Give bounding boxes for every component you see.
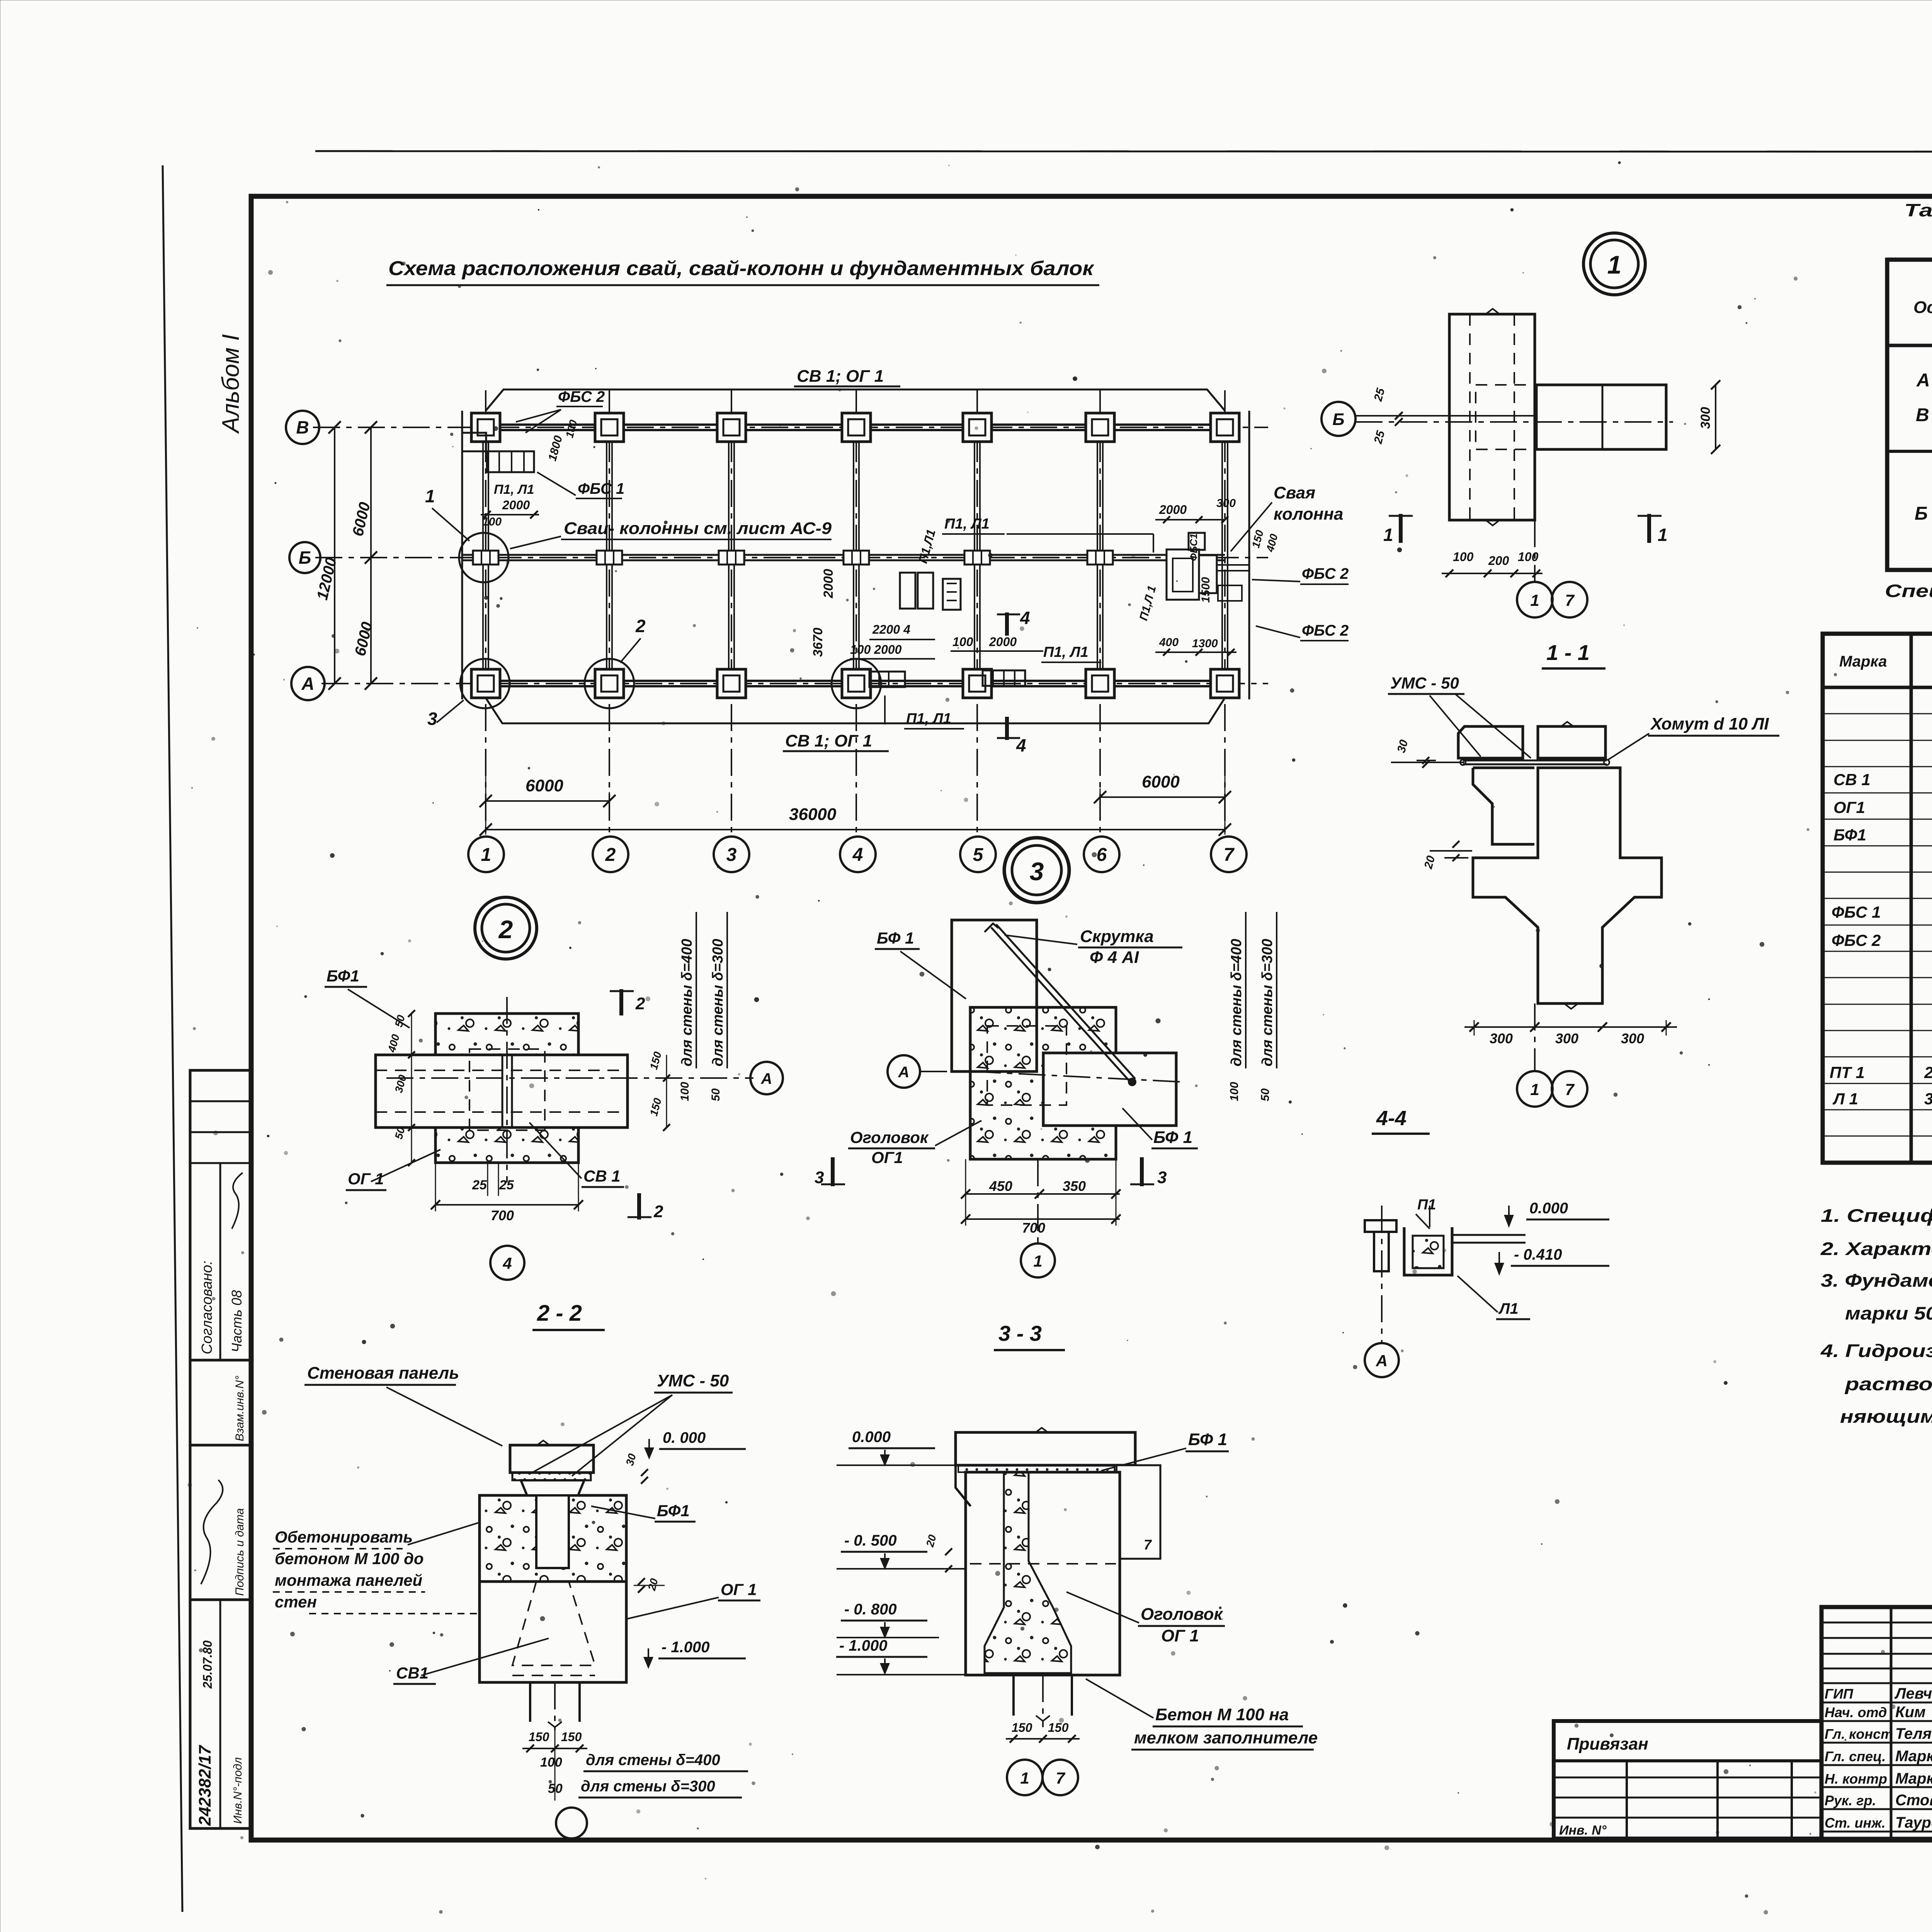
plates block near V1 [462, 433, 486, 451]
svg-text:БФ 1: БФ 1 [1188, 1430, 1227, 1449]
svg-text:1: 1 [1607, 250, 1622, 279]
node 1 callout circle [1583, 233, 1645, 295]
spec row line 9 [1823, 925, 1932, 926]
svg-text:4: 4 [852, 845, 863, 865]
svg-text:УМС - 50: УМС - 50 [1390, 674, 1459, 692]
axis circle 4 bottom [840, 837, 876, 872]
svg-text:ГИП: ГИП [1825, 1686, 1854, 1702]
svg-text:25: 25 [472, 1178, 487, 1192]
svg-text:для стены δ=400: для стены δ=400 [586, 1752, 720, 1769]
beam piece B2 [597, 551, 622, 565]
svg-text:7: 7 [1144, 1537, 1152, 1553]
beam column axis 4 [853, 427, 854, 684]
spec row line 7 [1823, 872, 1932, 873]
svg-text:БФ 1: БФ 1 [1153, 1128, 1192, 1147]
outer sheet edge top [315, 151, 1932, 152]
section1-1 panel top left [1458, 726, 1523, 758]
stamp frame [1821, 1607, 1932, 1839]
svg-text:Спецификация к схеме расп: Спецификация к схеме расположения свай, … [1885, 581, 1932, 601]
svg-text:2: 2 [498, 915, 513, 944]
spec row line 2 [1823, 740, 1932, 741]
spec row line 6 [1823, 845, 1932, 847]
4-4 pile piece [1365, 1220, 1396, 1232]
concrete pillar s33 [985, 1472, 1071, 1673]
svg-text:ОГ 1: ОГ 1 [721, 1580, 757, 1599]
svg-text:Инв.N°-подл: Инв.N°-подл [231, 1757, 244, 1824]
svg-text:3.006-2 вып. II - 1: 3.006-2 вып. II - 1 [1924, 1090, 1932, 1108]
node2 beam band [376, 1055, 628, 1128]
svg-text:2: 2 [635, 994, 645, 1013]
svg-text:1300: 1300 [1192, 637, 1218, 650]
axis column 3 line [731, 390, 732, 835]
mortar under beam s33 [958, 1465, 1117, 1472]
svg-text:П1, Л1: П1, Л1 [944, 516, 990, 532]
beam column axis 5 [974, 427, 975, 684]
svg-text:Схема расположения свай, свай-: Схема расположения свай, свай-колонн и ф… [388, 257, 1095, 280]
dims 150 150 s22 [522, 1748, 587, 1749]
foundation beam row B [462, 554, 1225, 556]
detail circle at A1 [460, 659, 510, 708]
axis circle 7 bottom [1211, 837, 1247, 872]
svg-text:СВ 1: СВ 1 [1833, 770, 1871, 789]
svg-text:Ким: Ким [1895, 1704, 1926, 1721]
svg-text:монтажа панелей: монтажа панелей [275, 1571, 422, 1589]
axis column 1 line [485, 390, 486, 835]
svg-text:2 - 2: 2 - 2 [537, 1301, 582, 1326]
margin approval box [190, 1070, 251, 1360]
main OG1 box s33 [966, 1472, 1120, 1675]
svg-text:В: В [1916, 405, 1929, 425]
svg-text:2. Характеристики грунта осн: 2. Характеристики грунта основания даны … [1820, 1238, 1932, 1259]
svg-text:2000: 2000 [1159, 503, 1187, 517]
outer sheet edge left (skewed) [163, 165, 182, 1912]
margin box inv n podl [190, 1600, 251, 1828]
stamp revision rows [1821, 1622, 1932, 1624]
svg-text:Нач. отд: Нач. отд [1825, 1704, 1887, 1720]
dim line 6000 6000 vertical [370, 427, 372, 684]
pile below s33 [1012, 1675, 1015, 1716]
svg-text:7: 7 [1565, 1080, 1575, 1099]
svg-text:Гл. конст: Гл. конст [1825, 1726, 1893, 1742]
svg-text:300: 300 [1555, 1031, 1578, 1046]
svg-text:1: 1 [1530, 591, 1539, 609]
node1 dim 300 [1715, 385, 1716, 449]
section1-1 column top right [1538, 726, 1605, 758]
svg-text:Марков: Марков [1895, 1770, 1932, 1787]
node1 axis circles 1 7 [1517, 582, 1553, 617]
svg-text:6000: 6000 [526, 776, 563, 795]
svg-text:7: 7 [1224, 845, 1235, 865]
section1-1 axis circles [1517, 1071, 1553, 1107]
svg-text:300: 300 [1216, 497, 1236, 510]
svg-text:4: 4 [1020, 608, 1030, 628]
spec table frame [1823, 634, 1932, 1163]
building edge right [1248, 411, 1250, 699]
spec row line 10 [1823, 951, 1932, 952]
svg-text:3: 3 [1157, 1168, 1167, 1187]
svg-text:для стены δ=300: для стены δ=300 [581, 1778, 715, 1795]
spec row line 17 [1823, 1136, 1932, 1137]
axis circle 5 bottom [960, 837, 996, 872]
pile column cross outline [1473, 768, 1662, 1003]
detail callout circle 3 big [1004, 838, 1069, 903]
pile cap A4 [842, 669, 871, 698]
dim line 12000 [334, 427, 335, 684]
svg-text:Стеновая панель: Стеновая панель [307, 1364, 459, 1383]
svg-text:мелком заполнителе: мелком заполнителе [1134, 1728, 1318, 1747]
svg-text:Оголовок: Оголовок [1141, 1605, 1224, 1624]
svg-text:150: 150 [529, 1730, 549, 1744]
svg-text:2: 2 [653, 1202, 663, 1221]
spec row line 4 [1823, 793, 1932, 794]
svg-text:ФБС 2: ФБС 2 [1832, 931, 1881, 949]
svg-text:П1, Л1: П1, Л1 [494, 482, 534, 497]
node2 section flag 2 top [619, 989, 623, 1015]
pile cap V1 [471, 413, 500, 442]
svg-text:3 - 3: 3 - 3 [998, 1321, 1042, 1345]
svg-text:100: 100 [1453, 550, 1474, 564]
OG1 box s22 [480, 1582, 626, 1682]
svg-text:- 0. 500: - 0. 500 [844, 1532, 897, 1549]
svg-text:ПТ 1: ПТ 1 [1830, 1063, 1865, 1082]
building edge left [461, 411, 463, 699]
svg-text:Обетонировать: Обетонировать [275, 1528, 413, 1546]
spec row line 16 [1823, 1109, 1932, 1111]
pile cap V3 [717, 413, 746, 442]
svg-text:Инв. N°: Инв. N° [1559, 1823, 1607, 1838]
svg-text:1: 1 [1658, 525, 1668, 545]
node2 axis circle 4 [490, 1246, 524, 1280]
svg-text:П1: П1 [1417, 1197, 1436, 1213]
privyazan table [1554, 1721, 1821, 1838]
svg-text:ОГ1: ОГ1 [1833, 798, 1865, 816]
svg-text:Ф 4 АI: Ф 4 АI [1090, 948, 1139, 967]
svg-text:0. 000: 0. 000 [663, 1429, 706, 1446]
svg-text:БФ1: БФ1 [1833, 826, 1866, 844]
foundation beam row A [486, 680, 1225, 682]
pile below s22 [529, 1682, 531, 1722]
svg-text:Часть 08: Часть 08 [229, 1290, 245, 1352]
svg-text:3: 3 [1030, 857, 1044, 886]
svg-text:6: 6 [1097, 845, 1107, 865]
spec row line 12 [1823, 1004, 1932, 1005]
beam column axis 6 [1097, 427, 1098, 684]
empty circle s22 [556, 1808, 587, 1838]
detail circle at B1 [459, 533, 509, 582]
svg-text:Марков: Марков [1895, 1748, 1932, 1765]
section1-1 bottom dims 300x3 [1464, 1026, 1677, 1028]
pile cap V5 [963, 413, 992, 442]
svg-text:ОГ1: ОГ1 [871, 1148, 903, 1167]
svg-text:УМС - 50: УМС - 50 [657, 1371, 729, 1390]
node3 concrete cap [970, 1007, 1116, 1159]
svg-text:Бетон М 100 на: Бетон М 100 на [1155, 1705, 1289, 1724]
svg-text:для стены δ=300: для стены δ=300 [710, 939, 726, 1066]
svg-text:марки 50, толщиной 20мм.: марки 50, толщиной 20мм. [1845, 1303, 1932, 1323]
node1 column strip [1449, 314, 1535, 520]
svg-text:Марка: Марка [1839, 653, 1887, 670]
svg-text:100: 100 [1228, 1082, 1241, 1101]
spec row line 3 [1823, 766, 1932, 767]
pile cap V4 [842, 413, 871, 442]
pile cap A1 [471, 669, 500, 698]
axis circle 6 bottom [1084, 837, 1119, 872]
svg-text:4. Гидроизоляцию для панелей: 4. Гидроизоляцию для панелей выполнять и… [1820, 1340, 1932, 1361]
svg-text:Таурова: Таурова [1895, 1814, 1932, 1831]
svg-text:300: 300 [1490, 1031, 1513, 1046]
svg-text:Л1: Л1 [1498, 1300, 1519, 1317]
svg-text:А: А [1376, 1352, 1388, 1370]
margin box podpis i data [190, 1445, 251, 1600]
og1 cut piece left [1473, 768, 1534, 844]
pile cap V2 [595, 413, 624, 442]
top beam s33 [956, 1432, 1135, 1465]
svg-text:- 1.000: - 1.000 [839, 1637, 888, 1654]
svg-text:Согласовано:: Согласовано: [199, 1261, 215, 1354]
svg-text:- 1.000: - 1.000 [662, 1639, 710, 1656]
svg-text:1: 1 [425, 486, 435, 506]
svg-text:400: 400 [1159, 636, 1179, 649]
svg-text:7: 7 [1565, 591, 1575, 609]
pile cap A3 [717, 669, 746, 698]
node1 section flag 1 right [1647, 514, 1651, 543]
building outline top [486, 389, 1225, 411]
beam column axis 1 [482, 427, 484, 684]
svg-text:5: 5 [973, 845, 984, 865]
svg-text:ФБС1: ФБС1 [1188, 533, 1199, 561]
axis column 6 line [1099, 390, 1101, 835]
svg-text:1500: 1500 [1199, 577, 1212, 603]
svg-text:для стены δ=400: для стены δ=400 [1228, 939, 1245, 1066]
svg-text:ФБС 2: ФБС 2 [558, 388, 605, 405]
detail circle at A2 [585, 659, 634, 708]
axis column 2 line [609, 390, 610, 835]
svg-text:Стовликов: Стовликов [1895, 1792, 1932, 1809]
svg-text:СВ 1: СВ 1 [583, 1167, 621, 1185]
svg-text:Гл. спец.: Гл. спец. [1825, 1748, 1886, 1764]
svg-text:0.000: 0.000 [1529, 1200, 1568, 1217]
svg-text:1: 1 [481, 845, 492, 865]
node1 section flag 1 left [1399, 514, 1403, 543]
svg-text:2000: 2000 [989, 635, 1017, 649]
B7 pile-column detail blocks [1167, 549, 1199, 600]
node3 dims 450 350 700 [966, 1193, 1120, 1195]
node 2 callout circle [475, 897, 537, 959]
node3 skrutka wire [991, 927, 1130, 1082]
svg-text:200: 200 [1488, 554, 1509, 568]
axis circles 1 7 s33 [1007, 1760, 1043, 1795]
svg-text:стен: стен [275, 1593, 317, 1611]
dim line bottom 6000 right [1100, 796, 1225, 798]
4-4 axis A [1381, 1206, 1383, 1342]
node2 axis circle A [750, 1062, 783, 1094]
svg-text:3: 3 [815, 1168, 824, 1187]
svg-text:Б: Б [1915, 503, 1928, 524]
svg-text:Подпись и дата: Подпись и дата [233, 1508, 246, 1596]
svg-text:Ст. инж.: Ст. инж. [1825, 1815, 1886, 1831]
main drawing frame [251, 196, 1932, 1840]
axis column 4 line [855, 390, 857, 835]
svg-text:100 2000: 100 2000 [850, 643, 902, 656]
svg-text:Рук. гр.: Рук. гр. [1825, 1793, 1876, 1808]
beam column axis 2 [606, 427, 607, 684]
svg-text:ФБС 2: ФБС 2 [1302, 622, 1349, 639]
svg-text:100: 100 [952, 635, 973, 649]
svg-text:2: 2 [635, 616, 646, 636]
svg-text:350: 350 [1063, 1178, 1086, 1194]
svg-text:- 0.410: - 0.410 [1514, 1246, 1562, 1263]
node3 dashed pile [987, 1026, 1066, 1105]
svg-text:300: 300 [1621, 1031, 1644, 1046]
svg-text:В: В [296, 417, 309, 437]
wall panel [510, 1445, 594, 1473]
svg-text:- 0. 800: - 0. 800 [844, 1601, 897, 1618]
pile cap V6 [1086, 413, 1114, 442]
svg-text:100: 100 [540, 1755, 562, 1770]
spec table columns [1910, 634, 1913, 1163]
node1 beam [1536, 385, 1666, 449]
node2 dashed pile square [469, 1049, 545, 1130]
svg-text:Привязан: Привязан [1567, 1735, 1648, 1753]
svg-text:П1, Л1: П1, Л1 [906, 711, 951, 727]
svg-text:25.07.80: 25.07.80 [201, 1640, 214, 1689]
node3 section flags 3 [831, 1157, 835, 1186]
svg-text:А: А [898, 1064, 910, 1081]
svg-text:1 - 1: 1 - 1 [1546, 640, 1590, 665]
svg-text:ФБС 2: ФБС 2 [1302, 565, 1349, 582]
svg-text:колонна: колонна [1274, 505, 1343, 524]
svg-text:Л 1: Л 1 [1832, 1090, 1858, 1108]
dim extension lines bottom [485, 769, 486, 835]
stamp role rows [1821, 1702, 1932, 1704]
spec row line 13 [1823, 1030, 1932, 1031]
axis row B line [315, 557, 1268, 558]
4-4 channel plate [1404, 1227, 1452, 1275]
svg-text:25: 25 [499, 1178, 514, 1192]
spec row line 14 [1823, 1056, 1932, 1058]
node3 beam right [1043, 1053, 1176, 1126]
svg-text:50: 50 [1259, 1088, 1272, 1101]
svg-text:П1, Л1: П1, Л1 [1043, 644, 1088, 660]
svg-text:4: 4 [502, 1254, 512, 1272]
axis circle 3 bottom [714, 837, 749, 872]
svg-text:раствора состава 1: 2 толщ.: раствора состава 1: 2 толщ. 30мм. на отм… [1844, 1374, 1932, 1394]
svg-text:БФ1: БФ1 [657, 1502, 690, 1520]
svg-text:1: 1 [1383, 525, 1393, 545]
svg-text:Теляковский: Теляковский [1895, 1725, 1932, 1742]
svg-text:242382/17: 242382/17 [196, 1744, 214, 1826]
svg-text:36000: 36000 [789, 805, 837, 824]
dim line bottom 6000 left [486, 800, 609, 802]
foundation beam row V [486, 423, 1225, 426]
svg-text:Таблица расчетных нагрузок: Таблица расчетных нагрузок на верхний об… [1904, 200, 1932, 220]
spec row line 1 [1823, 713, 1932, 714]
svg-text:300: 300 [1698, 407, 1713, 429]
pile cap A7 [1211, 669, 1239, 698]
mortar joint [512, 1473, 591, 1480]
beam piece B1 [473, 551, 498, 565]
beam column axis 7 [1221, 427, 1223, 684]
axis circle 2 bottom [593, 837, 628, 872]
svg-text:3: 3 [726, 845, 737, 865]
dims 150 150 s33 [1006, 1738, 1080, 1740]
axis column 5 line [976, 390, 978, 835]
svg-text:няющими добавками.: няющими добавками. [1840, 1406, 1932, 1427]
section flag 4 bottom [1005, 717, 1009, 740]
svg-text:700: 700 [1022, 1220, 1045, 1236]
svg-text:1: 1 [1033, 1252, 1042, 1270]
svg-text:Оголовок: Оголовок [850, 1128, 929, 1146]
svg-text:СВ 1; ОГ 1: СВ 1; ОГ 1 [797, 367, 884, 386]
svg-text:ОГ 1: ОГ 1 [1161, 1626, 1199, 1645]
axis circle A [291, 667, 325, 700]
plates on beam near A5 [983, 670, 1025, 686]
section flag 4 top [1005, 612, 1009, 636]
node2 concrete cap square [435, 1014, 578, 1163]
load table frame [1887, 260, 1932, 570]
svg-text:А: А [761, 1070, 772, 1087]
svg-text:4-4: 4-4 [1376, 1107, 1406, 1130]
node3 BF1 square outline [952, 920, 1037, 1071]
svg-text:Взам.инв.N°: Взам.инв.N° [233, 1376, 246, 1441]
node2 axes [386, 1077, 753, 1079]
axis row V line [313, 427, 1268, 428]
svg-text:150: 150 [1012, 1721, 1032, 1735]
pile cap V7 [1211, 413, 1239, 442]
svg-text:СВ 1; ОГ 1: СВ 1; ОГ 1 [785, 731, 872, 750]
node1 dims 100 200 100 [1442, 573, 1543, 574]
axis row A line [321, 683, 1268, 684]
node2 section flag 2 bottom [637, 1193, 641, 1219]
node3 axis circle A [888, 1055, 920, 1088]
beam piece B5 [964, 551, 990, 565]
svg-text:150: 150 [561, 1730, 582, 1744]
pile cap A6 [1086, 669, 1114, 698]
spec row line 15 [1823, 1083, 1932, 1084]
pile cap A5 [963, 669, 992, 698]
building outline bottom [486, 698, 1225, 723]
svg-text:Левченкова: Левченкова [1894, 1685, 1932, 1702]
svg-text:ФБС 1: ФБС 1 [1832, 903, 1881, 921]
hoop lines [1463, 760, 1607, 762]
beam piece B4 [844, 551, 869, 565]
svg-text:1: 1 [1020, 1769, 1029, 1787]
spec row line 8 [1823, 898, 1932, 899]
BF1 block with concrete [480, 1495, 626, 1582]
canal plates detail near axis 4 [900, 573, 915, 609]
svg-text:для стены δ=400: для стены δ=400 [679, 939, 695, 1066]
svg-text:2200 4: 2200 4 [872, 622, 910, 636]
svg-text:3670: 3670 [811, 628, 825, 657]
svg-text:100: 100 [679, 1082, 691, 1101]
svg-text:150: 150 [1048, 1721, 1069, 1735]
svg-text:Скрутка: Скрутка [1080, 927, 1154, 946]
axis circle B [289, 542, 320, 573]
axis column 7 line [1224, 390, 1226, 835]
svg-text:Свая: Свая [1274, 483, 1315, 502]
svg-text:Б: Б [1332, 410, 1344, 429]
svg-text:ФБС 1: ФБС 1 [578, 480, 624, 497]
node1 break marks [1486, 309, 1500, 314]
beam piece B6 [1087, 551, 1113, 565]
svg-text:СВ1: СВ1 [396, 1664, 429, 1682]
plates on beam near A4 [869, 672, 905, 687]
svg-text:4: 4 [1016, 735, 1026, 755]
svg-text:Сваи- колонны см. лист АС-9: Сваи- колонны см. лист АС-9 [564, 519, 832, 538]
svg-text:Б: Б [299, 548, 311, 568]
pile cap A2 [595, 669, 624, 698]
svg-text:2000: 2000 [821, 569, 836, 599]
